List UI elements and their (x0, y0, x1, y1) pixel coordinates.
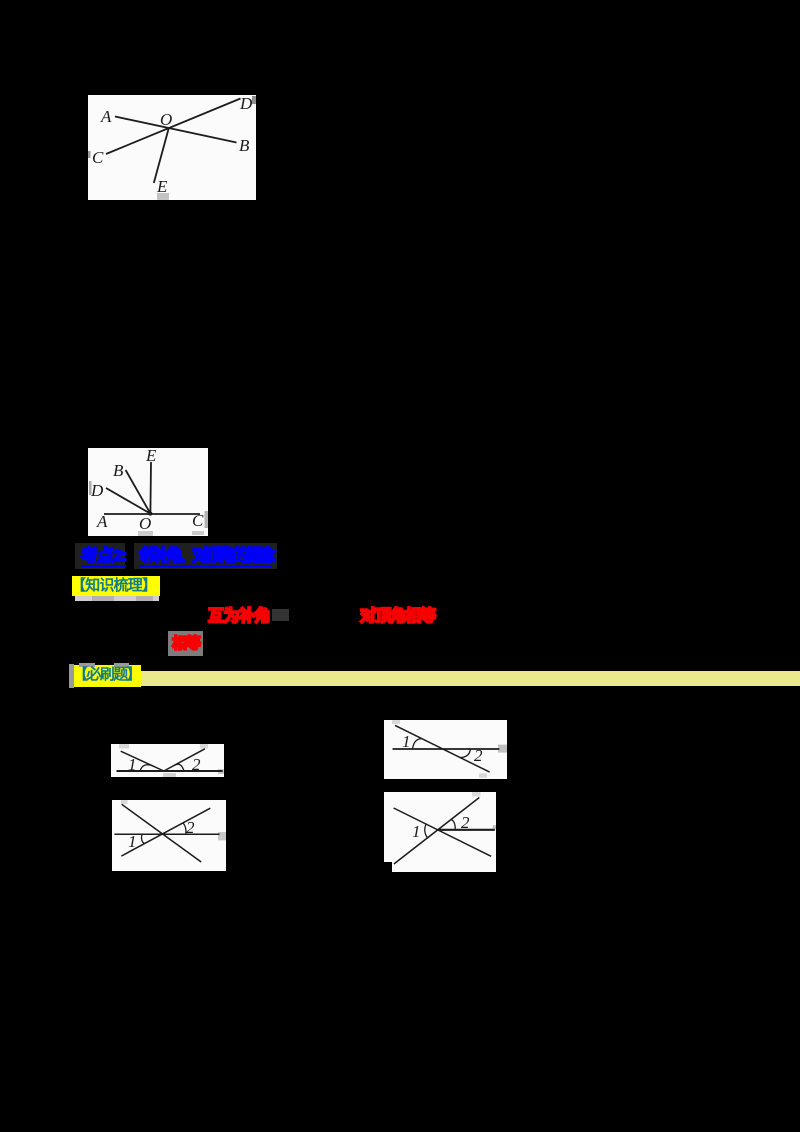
pale yellow strip (141, 671, 800, 686)
line AOC (104, 513, 200, 515)
svg-text:O: O (139, 514, 151, 533)
svg-text:C: C (192, 511, 204, 530)
svg-text:O: O (160, 110, 172, 129)
figure C: two diagonals and horizontal through one point (112, 800, 226, 871)
svg-text:B: B (113, 461, 124, 480)
line OE (154, 128, 169, 183)
gray artifact right of C (205, 511, 209, 528)
svg-text:1: 1 (412, 822, 421, 841)
gray artifact left edge (89, 481, 92, 495)
svg-text:A: A (96, 512, 108, 531)
left ray (121, 751, 164, 771)
gray box with red answer run 3 (168, 631, 204, 656)
gray artifact right-bottom (218, 769, 224, 774)
arc angle 1 (140, 765, 154, 771)
gray artifact bottom smudge 1 (138, 531, 153, 536)
gray artifact below E (157, 193, 169, 200)
figure 1: three lines through O (A,B,C,D,E) (88, 95, 256, 200)
arc angle 1 (142, 834, 145, 844)
arc angle 2 (451, 819, 455, 830)
svg-text:C: C (92, 148, 104, 167)
arc angle 2 (183, 823, 186, 834)
horizontal line (114, 833, 219, 835)
ray OE (149, 462, 152, 514)
gray artifact top-left (119, 744, 129, 749)
svg-text:B: B (239, 136, 250, 155)
red answer run 1 (208, 608, 270, 625)
gray artifact right edge (498, 745, 507, 753)
gray artifact top-left (392, 720, 400, 724)
gray underline strip below 知识梳理 (75, 596, 159, 601)
ray OB (126, 470, 151, 514)
svg-text:D: D (239, 95, 253, 113)
line CD (106, 99, 241, 155)
shallow diagonal (121, 808, 210, 856)
yellow highlight 必刷题 (74, 665, 141, 687)
gray artifact bottom (479, 773, 487, 778)
svg-text:D: D (90, 481, 104, 500)
base line (117, 770, 223, 772)
figure A: V on a line, angles 1 and 2 (111, 744, 224, 777)
horizontal ray (438, 829, 495, 831)
gray ghost after run 1 (272, 609, 289, 621)
gray artifact bottom smudge 2 (192, 531, 204, 535)
arc angle 2 (175, 764, 185, 771)
gray artifact right edge (493, 825, 496, 829)
red answer run 2 (360, 608, 435, 625)
arc angle 1 (413, 739, 422, 749)
gray artifact top (472, 792, 481, 797)
ray OD (106, 488, 150, 514)
svg-text:E: E (156, 177, 168, 196)
horizontal line (393, 748, 500, 750)
svg-text:2: 2 (186, 818, 195, 837)
diagonal TL-BR (394, 808, 492, 856)
svg-text:2: 2 (474, 746, 483, 765)
yellow highlight 知识梳理 (72, 576, 160, 596)
diagonal BL-TR (394, 798, 479, 865)
svg-text:1: 1 (402, 732, 411, 751)
figure B: line crossing horizontal, angles 1 and 2 (384, 720, 507, 779)
gray artifact below line (163, 773, 176, 777)
gray artifact top-left (121, 800, 128, 804)
figure D: X with horizontal ray, angles 1 and 2 (384, 792, 496, 872)
blue heading run 1: 考点2 with dark block (75, 543, 125, 569)
svg-text:2: 2 (461, 813, 470, 832)
arc angle 2 (460, 750, 470, 758)
gray artifact top-right (200, 744, 208, 749)
svg-text:1: 1 (128, 755, 137, 774)
svg-text:1: 1 (128, 832, 137, 851)
gray artifact right of D (252, 96, 256, 104)
svg-text:A: A (100, 107, 112, 126)
right ray (164, 749, 205, 771)
vertex dot O (148, 512, 152, 516)
svg-text:2: 2 (192, 755, 201, 774)
arc angle 1 (425, 824, 428, 838)
steep diagonal (122, 804, 202, 862)
line AB (115, 117, 237, 143)
black notch bottom-left (384, 862, 392, 872)
gray artifact right edge (218, 832, 226, 840)
svg-text:E: E (145, 448, 157, 465)
gray artifact left of C (88, 151, 91, 158)
blue heading run 2: topic title with dark block (134, 543, 277, 569)
diagonal line (395, 725, 490, 772)
figure 2: rays OB, OD, OE above line AOC (88, 448, 208, 536)
